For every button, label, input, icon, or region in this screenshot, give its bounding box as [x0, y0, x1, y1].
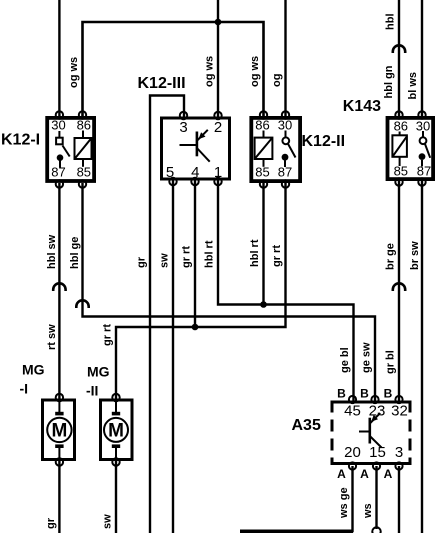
svg-text:gr rt: gr rt — [102, 324, 114, 346]
MG-I stub top — [58, 400, 60, 412]
node junction top bus — [215, 19, 222, 26]
svg-text:-I: -I — [20, 381, 29, 397]
svg-text:hbl rt: hbl rt — [204, 240, 216, 268]
svg-text:bl ws: bl ws — [407, 72, 419, 100]
K12-II terminal 85 — [260, 180, 267, 187]
svg-text:4: 4 — [191, 164, 199, 181]
K12-II switch fixed contact circle — [282, 137, 289, 144]
A35 transistor bar — [368, 418, 371, 444]
svg-text:3: 3 — [395, 444, 403, 461]
K12-I coil — [75, 138, 92, 159]
MG-II stub bottom — [115, 448, 117, 460]
K143 stub dot to 87 — [421, 160, 423, 167]
svg-text:gr: gr — [45, 517, 57, 529]
K143 coil — [392, 135, 407, 157]
svg-text:og ws: og ws — [68, 57, 80, 88]
wire og ws bus horizontal top — [83, 22, 264, 116]
A35 terminal 3 — [395, 462, 402, 469]
arrow up on hbl ge wire — [76, 300, 88, 308]
arrow up on br ge wire — [393, 283, 405, 291]
K12-I terminal 86 — [79, 111, 86, 118]
wire hbl into K143 pin 86 — [398, 0, 400, 116]
A35 terminal 32 — [395, 396, 402, 403]
K12-II terminal 86 — [260, 111, 267, 118]
K143 switch stub from 30 — [422, 131, 424, 138]
K12-III terminal 3 — [180, 112, 187, 119]
wire og-ws top-left into K12-I pin 30 — [58, 0, 60, 116]
bottom connector ring — [372, 527, 380, 533]
A35 transistor arrow — [371, 415, 378, 422]
K12-I switch stub from 30 — [58, 131, 60, 138]
svg-text:B: B — [384, 386, 393, 400]
svg-text:gr bl: gr bl — [385, 350, 397, 374]
K12-III transistor base — [180, 144, 197, 146]
svg-text:ws ge: ws ge — [338, 487, 350, 519]
MG-I terminal bottom — [56, 458, 63, 465]
svg-text:gr: gr — [136, 256, 148, 268]
K12-II coil stub top — [263, 131, 265, 138]
K143 terminal 85 — [395, 178, 402, 185]
K12-II terminal 87 — [282, 180, 289, 187]
K143 switch blade — [425, 144, 430, 158]
K12-III transistor bar — [196, 132, 199, 157]
svg-text:br sw: br sw — [409, 241, 421, 270]
svg-text:20: 20 — [344, 444, 361, 461]
svg-text:85: 85 — [394, 163, 408, 178]
svg-text:A35: A35 — [292, 417, 321, 434]
relay K12-I box — [47, 118, 94, 181]
node junction H3 — [192, 324, 199, 331]
svg-text:-II: -II — [86, 383, 98, 399]
svg-text:86: 86 — [255, 118, 269, 133]
relay K12-III box — [162, 118, 230, 179]
svg-text:br ge: br ge — [385, 243, 397, 270]
svg-text:85: 85 — [77, 165, 91, 180]
A35 terminal 23 — [371, 396, 378, 403]
motor MG-I box — [43, 400, 75, 460]
svg-text:A: A — [337, 467, 346, 481]
relay K12-II box — [251, 118, 300, 181]
MG-I brush pad top — [55, 412, 63, 416]
relay K143 box — [388, 118, 434, 179]
MG-II terminal bottom — [112, 458, 119, 465]
K143 terminal 86 — [395, 111, 402, 118]
A35 left edge dashed — [331, 401, 334, 466]
node junction H1 — [260, 301, 267, 308]
thick bottom rail — [240, 530, 353, 533]
svg-text:K12-I: K12-I — [1, 131, 40, 148]
wire og ws from top into junction and K12-III pin 2 — [217, 0, 219, 117]
svg-text:ge bl: ge bl — [339, 347, 351, 373]
svg-text:86: 86 — [77, 118, 91, 133]
K12-I terminal 87 — [56, 180, 63, 187]
MG-II brush pad top — [112, 412, 120, 416]
K12-II switch stub from 30 — [285, 131, 287, 138]
svg-text:85: 85 — [255, 165, 269, 180]
arrow up on hbl wire — [393, 45, 405, 53]
svg-text:gr rt: gr rt — [181, 246, 193, 268]
wire hbl rt from K12-III pin 1 to H1 to A35 pin 45 — [218, 181, 354, 401]
K143 terminal 87 — [418, 178, 425, 185]
svg-text:og ws: og ws — [204, 56, 216, 87]
A35 terminal 20 — [349, 462, 356, 469]
K12-II coil stub bottom — [263, 159, 265, 167]
MG-I stub bottom — [58, 448, 60, 460]
K12-II switch contact dot 87 — [282, 154, 289, 161]
A35 bottom edge — [331, 462, 412, 465]
svg-text:rt sw: rt sw — [46, 324, 58, 350]
svg-text:30: 30 — [278, 118, 292, 133]
MG-I brush pad bottom — [55, 444, 63, 448]
svg-text:87: 87 — [51, 165, 65, 180]
wire og into K12-II pin 30 — [284, 0, 286, 116]
svg-text:30: 30 — [51, 118, 65, 133]
K12-I terminal 85 — [79, 180, 86, 187]
wire gr from K12-III pin 3 stub — [150, 96, 184, 533]
svg-text:K143: K143 — [343, 98, 381, 115]
K143 terminal 30 — [418, 111, 425, 118]
motor MG-II box — [101, 400, 133, 460]
A35 right edge dashed — [409, 401, 412, 466]
A35 transistor base — [359, 431, 370, 433]
A35 terminal 15 — [373, 462, 380, 469]
svg-text:hbl sw: hbl sw — [46, 234, 58, 269]
svg-text:MG: MG — [22, 362, 45, 378]
svg-text:MG: MG — [87, 364, 110, 380]
K12-I coil diagonal — [75, 138, 92, 159]
svg-text:M: M — [51, 421, 67, 442]
wire ws from A35 pin 15 to bottom connector — [375, 466, 377, 529]
K12-II terminal 30 — [282, 111, 289, 118]
svg-text:hbl: hbl — [385, 14, 397, 31]
K12-II switch blade — [288, 144, 296, 158]
K143 coil stub bottom — [399, 157, 401, 166]
K12-III transistor emitter — [197, 148, 210, 162]
K143 switch fixed contact circle — [420, 137, 427, 144]
MG-II rotor circle — [104, 418, 128, 442]
svg-text:15: 15 — [369, 444, 386, 461]
svg-text:hbl gn: hbl gn — [383, 65, 395, 98]
K143 coil diagonal — [392, 136, 407, 157]
A35 terminal 45 — [349, 396, 356, 403]
K12-I switch blade — [63, 146, 70, 157]
svg-text:B: B — [360, 386, 369, 400]
svg-text:ge sw: ge sw — [361, 342, 373, 373]
MG-I rotor circle — [47, 418, 71, 442]
K12-II coil — [255, 138, 273, 159]
svg-text:A: A — [360, 467, 369, 481]
K143 coil stub top — [399, 132, 401, 136]
svg-text:3: 3 — [179, 119, 187, 136]
wire ws ge from A35 pin 20 down and left — [240, 466, 353, 531]
K12-I coil stub top — [82, 131, 84, 139]
K12-III transistor arrow — [198, 132, 205, 139]
svg-text:87: 87 — [417, 163, 431, 178]
svg-text:86: 86 — [394, 119, 408, 134]
K12-I terminal 30 — [56, 111, 63, 118]
svg-text:5: 5 — [166, 164, 174, 181]
svg-text:sw: sw — [102, 514, 114, 529]
K12-III terminal 5 — [169, 178, 176, 185]
wire sw below MG-II — [115, 461, 117, 533]
wire hbl rt from K12-II pin 85 — [262, 183, 264, 305]
wire hbl ge from K12-I pin 85 to H2 — [83, 183, 376, 401]
svg-text:og: og — [271, 74, 283, 87]
A35 transistor collector — [370, 413, 380, 423]
svg-text:M: M — [108, 421, 124, 442]
svg-text:A: A — [384, 467, 393, 481]
wire br sw from K143 pin 87 down — [421, 181, 423, 533]
K12-I coil stub bottom — [82, 159, 84, 167]
wire bl ws into K143 pin 30 — [421, 0, 423, 116]
MG-I terminal top — [56, 394, 63, 401]
wire sw from K12-III pin 5 — [172, 181, 174, 533]
svg-text:45: 45 — [344, 402, 361, 419]
svg-text:2: 2 — [214, 119, 222, 136]
A35 transistor emitter — [370, 436, 382, 448]
A35 top edge — [331, 401, 412, 404]
K12-II coil diagonal — [255, 138, 273, 159]
svg-text:K12-III: K12-III — [138, 75, 186, 92]
K12-I switch contact dot 87 — [57, 154, 64, 161]
K12-III transistor collector — [197, 130, 208, 141]
svg-text:og ws: og ws — [249, 56, 261, 87]
svg-text:B: B — [337, 386, 346, 400]
svg-text:ws: ws — [362, 503, 374, 519]
wire gr rt from K12-III pin 4 — [194, 181, 196, 328]
wire hbl sw / rt sw from K12-I pin 87 to MG-I — [58, 183, 60, 399]
K12-I switch fixed contact square — [56, 138, 63, 145]
K143 switch contact dot 87 — [419, 153, 426, 160]
svg-text:sw: sw — [159, 253, 171, 268]
MG-II brush pad bottom — [112, 444, 120, 448]
K12-III terminal 1 — [214, 178, 221, 185]
svg-text:gr rt: gr rt — [271, 245, 283, 267]
K12-III terminal 2 — [214, 112, 221, 119]
svg-text:hbl rt: hbl rt — [249, 239, 261, 267]
wire gr rt from K12-II pin 87 to H3 to MG-II — [116, 183, 286, 399]
arrow up on rt sw wire — [53, 283, 65, 291]
K12-I stub dot to 87 — [59, 160, 61, 168]
MG-II terminal top — [112, 394, 119, 401]
wire from A35 pin 3 down — [398, 466, 400, 533]
K12-III terminal 4 — [191, 178, 198, 185]
K12-II stub dot to 87 — [284, 161, 286, 168]
svg-text:hbl ge: hbl ge — [69, 237, 81, 269]
svg-text:1: 1 — [214, 164, 222, 181]
svg-text:K12-II: K12-II — [302, 133, 346, 150]
MG-II stub top — [115, 400, 117, 412]
wire br ge from K143 pin 85 to A35 pin 32 — [398, 181, 400, 401]
svg-text:32: 32 — [391, 402, 408, 419]
wire gr below MG-I — [58, 461, 60, 533]
